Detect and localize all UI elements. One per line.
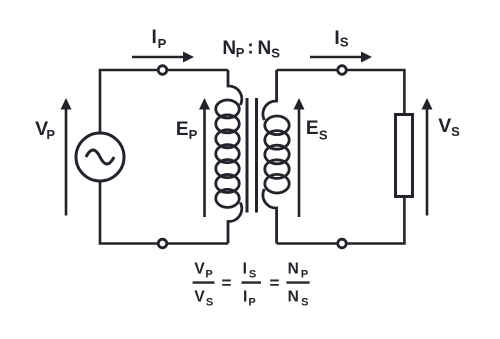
svg-text:P: P: [236, 45, 245, 60]
svg-text::: :: [247, 38, 253, 59]
svg-text:=: =: [270, 273, 280, 292]
svg-text:V: V: [438, 115, 451, 137]
svg-text:E: E: [306, 118, 319, 139]
svg-text:N: N: [222, 38, 236, 59]
svg-text:S: S: [301, 296, 308, 308]
svg-text:I: I: [334, 28, 339, 49]
svg-text:S: S: [340, 34, 349, 49]
svg-text:P: P: [158, 36, 167, 51]
svg-text:=: =: [222, 273, 232, 292]
svg-text:V: V: [194, 261, 205, 278]
svg-text:S: S: [271, 46, 280, 61]
svg-text:P: P: [205, 269, 212, 281]
svg-text:N: N: [288, 261, 299, 278]
svg-text:N: N: [258, 38, 272, 59]
svg-text:I: I: [243, 261, 247, 278]
svg-text:I: I: [152, 27, 157, 48]
svg-text:E: E: [176, 119, 189, 140]
svg-text:S: S: [319, 128, 328, 143]
svg-text:P: P: [46, 127, 55, 142]
svg-text:S: S: [206, 296, 213, 308]
svg-text:S: S: [249, 269, 256, 281]
svg-text:P: P: [301, 269, 308, 281]
svg-text:S: S: [451, 124, 460, 139]
svg-text:I: I: [243, 289, 247, 306]
svg-text:P: P: [248, 296, 255, 308]
svg-text:P: P: [189, 127, 198, 142]
svg-text:V: V: [194, 289, 205, 306]
svg-text:N: N: [288, 289, 299, 306]
